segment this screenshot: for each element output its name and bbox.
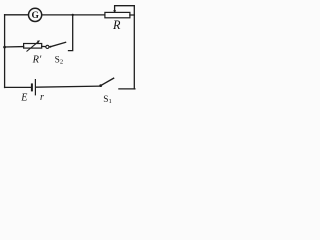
galvanometer G	[28, 8, 41, 21]
battery long plate	[34, 80, 36, 95]
background	[0, 0, 139, 111]
wire bottom right of battery	[36, 86, 100, 87]
switch S1 lever	[101, 78, 114, 85]
rheostat R' arrow	[27, 40, 40, 51]
wire middle branch	[5, 46, 24, 48]
resistor R	[105, 12, 130, 17]
svg-text:G: G	[32, 11, 40, 21]
slider arrow on R	[113, 10, 116, 13]
svg-text:E: E	[20, 93, 27, 104]
wire top left	[5, 14, 29, 16]
node T junction	[72, 14, 74, 16]
wire R' to S2	[42, 45, 46, 47]
wire bottom left	[5, 86, 31, 88]
switch S2 lever	[50, 42, 65, 47]
svg-text:R: R	[112, 18, 121, 32]
wire slider bracket over R	[115, 6, 135, 13]
wire R right stub	[130, 14, 134, 16]
switch S2 lever dot	[49, 46, 51, 48]
wire S1 fixed contact foot	[119, 88, 135, 90]
switch S2 pivot circle	[46, 45, 49, 48]
node middle-left junction	[3, 46, 6, 49]
wire left vertical	[4, 15, 6, 88]
wire top middle	[42, 14, 105, 16]
wire right vertical	[133, 6, 135, 89]
rheostat R'	[24, 44, 42, 49]
wire S2 branch vertical	[69, 15, 73, 51]
svg-text:r: r	[40, 92, 44, 103]
battery short plate	[31, 84, 33, 90]
svg-text:R′: R′	[32, 54, 42, 65]
switch S1 pivot dot	[99, 84, 102, 87]
